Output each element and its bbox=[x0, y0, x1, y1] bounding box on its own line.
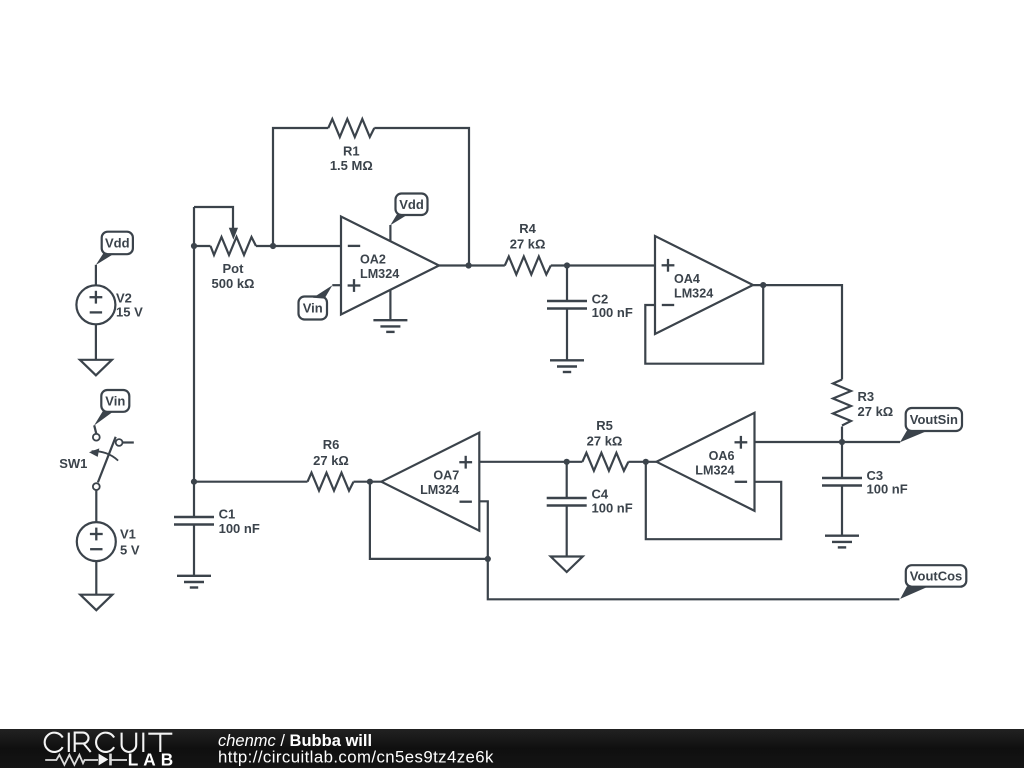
svg-text:VoutCos: VoutCos bbox=[910, 569, 962, 584]
svg-text:LAB: LAB bbox=[128, 750, 178, 768]
svg-text:V1: V1 bbox=[120, 526, 136, 541]
svg-text:27 kΩ: 27 kΩ bbox=[858, 404, 894, 419]
svg-text:R5: R5 bbox=[596, 418, 613, 433]
svg-text:OA6: OA6 bbox=[709, 449, 735, 463]
svg-text:OA7: OA7 bbox=[433, 469, 459, 483]
svg-text:LM324: LM324 bbox=[420, 483, 459, 497]
svg-text:OA2: OA2 bbox=[360, 253, 386, 267]
svg-text:C1: C1 bbox=[219, 507, 236, 522]
svg-text:V2: V2 bbox=[116, 291, 132, 306]
svg-text:R3: R3 bbox=[858, 389, 875, 404]
svg-text:R4: R4 bbox=[519, 221, 536, 236]
svg-text:1.5 MΩ: 1.5 MΩ bbox=[330, 158, 373, 173]
svg-text:100 nF: 100 nF bbox=[592, 305, 633, 320]
svg-text:C4: C4 bbox=[592, 487, 609, 502]
svg-text:27 kΩ: 27 kΩ bbox=[587, 434, 623, 449]
svg-text:SW1: SW1 bbox=[59, 456, 87, 471]
svg-text:http://circuitlab.com/cn5es9tz: http://circuitlab.com/cn5es9tz4ze6k bbox=[218, 748, 494, 767]
svg-text:5 V: 5 V bbox=[120, 542, 140, 557]
svg-text:100 nF: 100 nF bbox=[592, 501, 633, 516]
svg-text:100 nF: 100 nF bbox=[867, 481, 908, 496]
svg-text:Vin: Vin bbox=[105, 394, 125, 409]
svg-text:R1: R1 bbox=[343, 143, 360, 158]
svg-text:R6: R6 bbox=[323, 437, 340, 452]
svg-text:500 kΩ: 500 kΩ bbox=[212, 276, 255, 291]
svg-text:VoutSin: VoutSin bbox=[910, 412, 958, 427]
svg-text:LM324: LM324 bbox=[674, 287, 713, 301]
svg-text:Pot: Pot bbox=[223, 261, 245, 276]
svg-text:LM324: LM324 bbox=[360, 267, 399, 281]
svg-text:15 V: 15 V bbox=[116, 304, 143, 319]
svg-text:27 kΩ: 27 kΩ bbox=[510, 236, 546, 251]
svg-text:Vin: Vin bbox=[303, 301, 323, 316]
svg-text:OA4: OA4 bbox=[674, 272, 700, 286]
svg-text:Vdd: Vdd bbox=[399, 197, 424, 212]
svg-text:27 kΩ: 27 kΩ bbox=[313, 453, 349, 468]
svg-text:100 nF: 100 nF bbox=[219, 521, 260, 536]
svg-text:LM324: LM324 bbox=[695, 463, 734, 477]
svg-text:Vdd: Vdd bbox=[105, 236, 130, 251]
